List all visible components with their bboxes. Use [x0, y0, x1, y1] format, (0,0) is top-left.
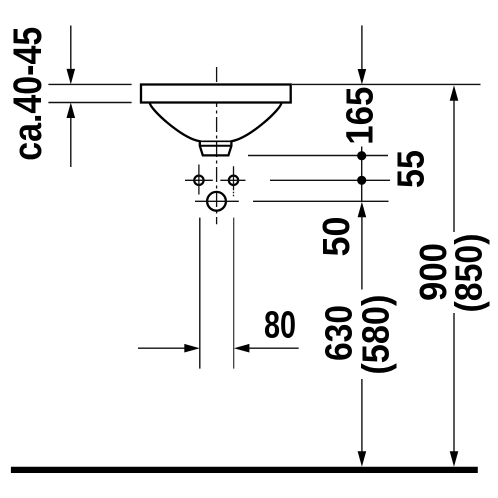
faucet hole left: [194, 176, 203, 185]
drain hole circle: [207, 192, 226, 211]
label 55: [391, 150, 433, 188]
drain hole crosshair horizontal: [195, 200, 239, 202]
dim 165 arrow: [358, 25, 367, 84]
supply line lower (55 bottom): [270, 179, 390, 181]
faucet hole right crosshair horizontal: [220, 179, 245, 181]
extension line rim-top left: [48, 83, 131, 85]
dim 630 upper arrow: [358, 202, 367, 290]
washbasin rim: [141, 85, 291, 103]
svg-text:(850): (850): [448, 234, 490, 313]
faucet hole right crosshair vertical: [233, 166, 235, 190]
label 630: [319, 305, 361, 361]
svg-text:630: 630: [319, 305, 361, 361]
label 900: [413, 243, 455, 301]
dim 630 lower arrow: [358, 379, 367, 467]
faucet hole right centerline dots: [233, 192, 235, 197]
svg-text:55: 55: [391, 150, 433, 188]
hole extension line left: [199, 218, 201, 369]
washbasin bowl: [150, 103, 282, 156]
faucet hole left crosshair vertical: [198, 165, 200, 195]
drain flange bottom: [200, 145, 232, 147]
label 165: [339, 87, 381, 145]
chain dot lower: [357, 176, 366, 185]
centerline of basin: [216, 67, 218, 224]
dim 900 lower arrow: [450, 313, 459, 467]
svg-text:80: 80: [264, 305, 296, 347]
drain level line: [253, 200, 389, 202]
drain flange top: [200, 140, 232, 142]
dim 80 right arrow: [234, 344, 299, 353]
hole extension line right: [233, 218, 235, 369]
chain dimension line through dots: [361, 147, 363, 202]
extension line rim-top right: [292, 83, 481, 85]
label 50: [316, 217, 358, 257]
label (850): [448, 234, 490, 313]
supply line upper (55 top): [248, 155, 388, 157]
label (580): [356, 295, 398, 375]
floor line: [11, 467, 478, 473]
dim ca.40-45 upper arrow: [67, 26, 76, 85]
dim 900 upper arrow: [450, 85, 459, 232]
dim ca.40-45 lower arrow: [67, 103, 76, 168]
svg-text:50: 50: [316, 217, 358, 257]
extension line rim-bottom left: [48, 102, 131, 104]
svg-text:(580): (580): [356, 295, 398, 375]
dim 80 left arrow: [138, 344, 200, 353]
label ca.40-45: [6, 27, 50, 161]
faucet hole left crosshair horizontal: [185, 179, 213, 181]
svg-text:165: 165: [339, 87, 381, 145]
svg-text:ca.40-45: ca.40-45: [6, 27, 50, 161]
chain dot upper: [357, 151, 366, 160]
faucet hole right: [229, 176, 238, 185]
